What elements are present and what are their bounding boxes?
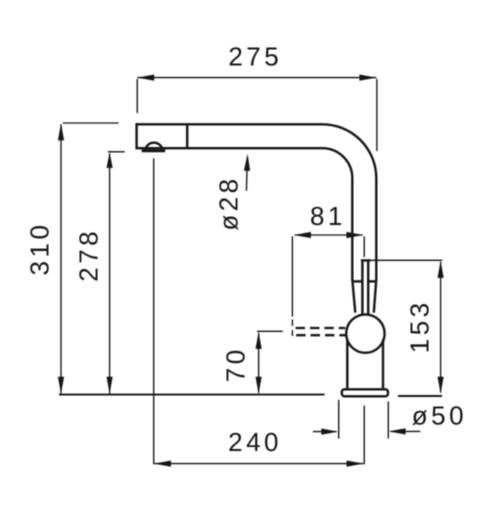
svg-text:153: 153 <box>405 299 435 353</box>
svg-text:70: 70 <box>221 346 251 382</box>
svg-text:81: 81 <box>310 201 346 231</box>
svg-text:ø28: ø28 <box>213 175 243 230</box>
svg-text:310: 310 <box>24 222 54 276</box>
svg-text:275: 275 <box>228 42 282 72</box>
svg-text:278: 278 <box>73 228 103 282</box>
svg-text:ø50: ø50 <box>412 401 467 431</box>
svg-text:240: 240 <box>228 427 282 457</box>
